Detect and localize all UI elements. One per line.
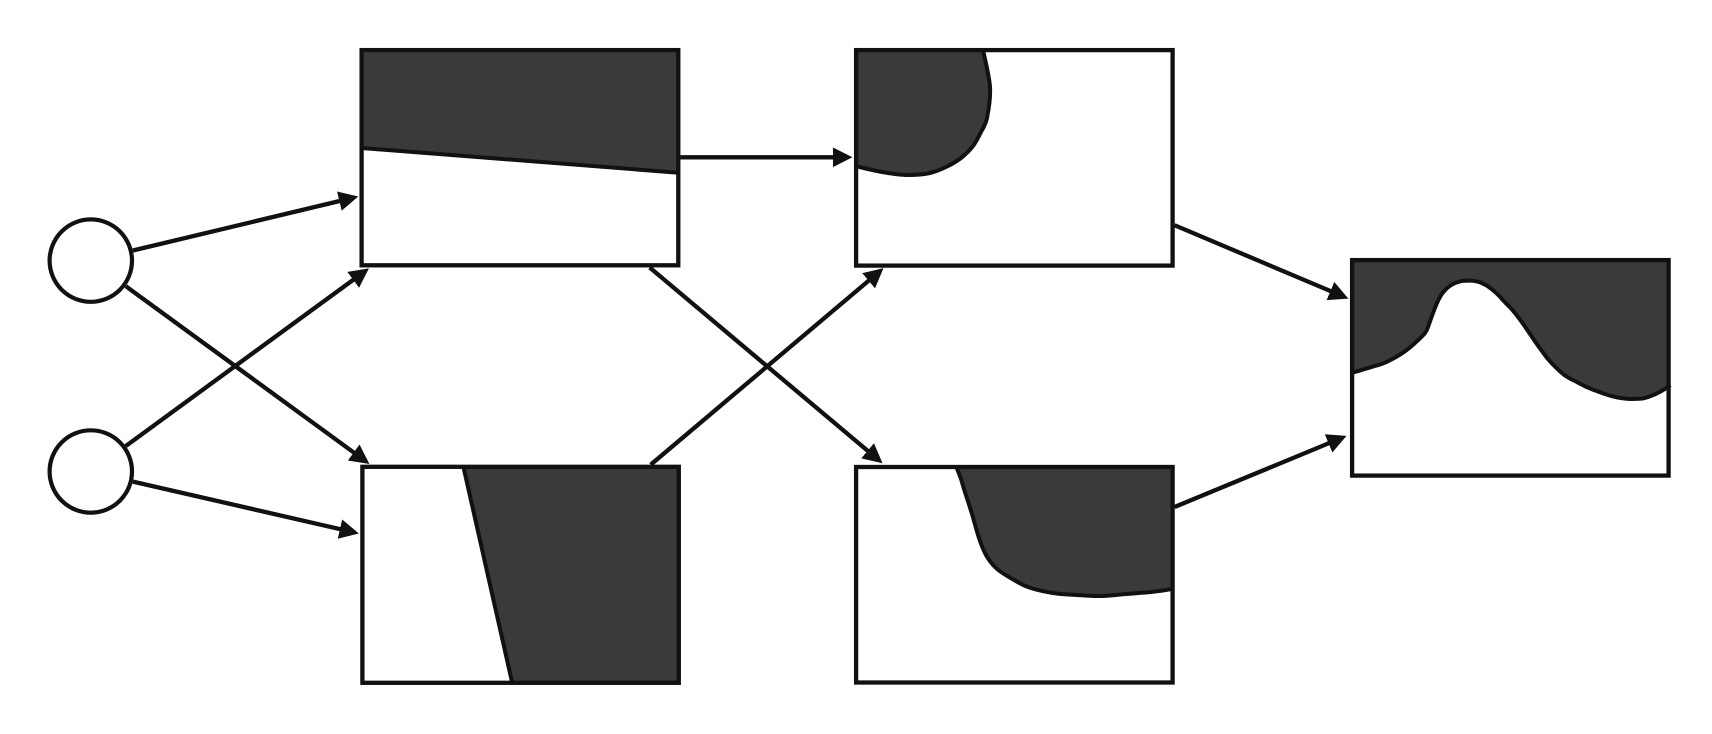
hidden node H2 (bottom-left box, slanted vertical region) [362, 467, 678, 683]
hidden node H3 (top-right box, corner blob region) [854, 48, 1173, 266]
wire hidden1 to hidden4 [650, 268, 868, 452]
hidden node H4 (bottom-right box, curved corner region) [856, 465, 1174, 683]
output node (wavy region box) [1350, 258, 1670, 476]
wire input2 to hidden1 [126, 280, 354, 446]
input node X2 [50, 430, 132, 512]
wire hidden1 to hidden3 [681, 155, 834, 159]
wire hidden3 to output [1175, 225, 1331, 291]
hidden node H1 (top-left box, slanted half-plane region) [362, 50, 679, 265]
wire input2 to hidden2 [133, 482, 340, 530]
wire input1 to hidden2 [126, 286, 354, 453]
wire hidden4 to output [1175, 443, 1329, 507]
wire hidden2 to hidden3 [651, 281, 869, 465]
input node X1 [50, 219, 132, 301]
wire input1 to hidden1 [133, 201, 340, 251]
